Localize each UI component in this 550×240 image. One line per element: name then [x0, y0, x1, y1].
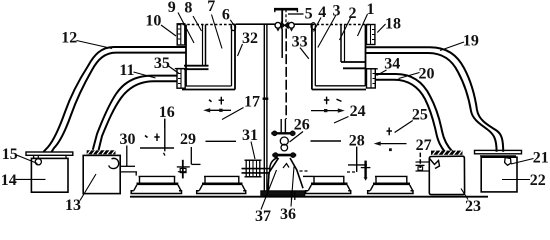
label leader 25 [395, 121, 413, 133]
valve V1 left drip triangle [276, 29, 279, 32]
label leader 35 [169, 66, 180, 74]
pipe 12 upper line [43, 47, 186, 152]
valve V1 right drip triangle [290, 29, 293, 32]
container 13 body [83, 155, 120, 193]
container 14 latch circle [35, 159, 41, 165]
label leader 6 [230, 20, 234, 26]
fitting F31 ribs [250, 160, 257, 176]
label leader 31 [251, 142, 255, 160]
connector line container13 to right lower [121, 171, 138, 173]
svg-text:5: 5 [305, 6, 313, 23]
dashes left of stud 28 [347, 171, 356, 173]
container 13 hatched rim [87, 150, 116, 154]
right tank box top dashed edge [312, 24, 369, 26]
fitting F34 inner rib [370, 69, 372, 88]
valve V1 right bolt circle [289, 22, 295, 28]
svg-text:15: 15 [2, 146, 18, 163]
svg-text:2: 2 [349, 5, 357, 22]
label leader 1 [358, 14, 368, 36]
left tank shelf upper [184, 65, 209, 67]
label leader 30 [126, 146, 128, 167]
left tank box bottom outer [182, 89, 235, 91]
svg-text:26: 26 [294, 117, 310, 134]
arrow 25 head [374, 141, 381, 145]
pipe 20 upper line [376, 74, 453, 152]
arrow 24 shaft [311, 110, 338, 112]
label leader 21 [511, 159, 534, 165]
fitting F18 body [367, 25, 375, 45]
left tank inner wall inner [202, 25, 204, 67]
support bell B1 [131, 176, 181, 193]
stud 28 point [364, 177, 368, 180]
support bell B3 [306, 176, 351, 193]
label leader 37 [261, 170, 277, 210]
svg-text:14: 14 [1, 172, 17, 189]
right tank box left wall outer [311, 24, 313, 89]
pipe 12 lower line [52, 53, 186, 152]
pump feet ticks [292, 191, 295, 200]
label leader 9 [178, 13, 194, 44]
svg-text:28: 28 [349, 132, 365, 149]
datum cross 16 horizontal [140, 147, 174, 149]
label leader 24 [334, 117, 349, 124]
valve V1 left bolt circle [275, 22, 281, 28]
label dash left of 31 [206, 140, 237, 142]
right tank box bottom outer [312, 89, 366, 91]
arrow 24 tick [337, 99, 342, 101]
arrow 24 head [338, 108, 345, 112]
T bar right tick [296, 9, 298, 13]
svg-text:31: 31 [242, 127, 258, 144]
svg-text:20: 20 [419, 65, 435, 82]
label leader 32 [238, 44, 243, 56]
container 22 lid plate [475, 150, 522, 153]
label leader 12 [77, 41, 113, 49]
svg-text:22: 22 [530, 172, 546, 189]
svg-text:35: 35 [154, 55, 170, 72]
svg-text:18: 18 [385, 16, 401, 33]
pump body apex mark [283, 164, 289, 169]
top connecting line right segment [295, 23, 313, 25]
svg-text:24: 24 [350, 103, 366, 120]
arrow 17 shaft [206, 109, 231, 111]
datum cross 16 dagger [154, 134, 159, 142]
label leader 18 [377, 24, 385, 33]
datum cross 16 vertical [164, 119, 166, 151]
fitting F35 cap [175, 68, 188, 70]
T bar left tick [274, 9, 276, 13]
fitting F34 cap [365, 68, 378, 70]
pipe 11 lower line [99, 81, 177, 150]
left tank inner wall outer [205, 25, 207, 67]
pipe 11 upper line [93, 76, 177, 150]
arrow 17 comma [209, 100, 212, 102]
pump second flange [272, 154, 296, 157]
pump suction pipe upper [242, 168, 271, 170]
stud 29 side line [192, 163, 201, 165]
svg-text:1: 1 [367, 1, 375, 18]
pump top flange right bolt [290, 131, 295, 136]
right tank box bottom inner [315, 85, 365, 87]
fitting F10 tick marks [178, 29, 181, 39]
line 28 cross [348, 164, 367, 166]
container 22 body [481, 157, 517, 192]
arrow 24 dot [324, 109, 327, 112]
pump inlet pipe pair above flange [281, 119, 285, 132]
pump top flange left bolt [272, 131, 277, 136]
fitting F31 cap top [245, 159, 262, 161]
fitting F31 cap bottom [245, 176, 262, 178]
center dashed line [285, 29, 287, 120]
pipe 19 upper line [366, 47, 503, 152]
right tank inner wall inner [344, 25, 346, 63]
dashes left of bell B3 [300, 170, 308, 172]
label leader 16 [164, 119, 166, 129]
label leader 14 [16, 178, 46, 180]
arrow 24 dagger [324, 97, 329, 105]
label leader 26 [290, 132, 304, 143]
svg-text:37: 37 [255, 208, 271, 225]
svg-text:25: 25 [412, 107, 428, 124]
label leader 23 [461, 189, 468, 200]
connector tick down [135, 172, 137, 176]
stud 28 cross tick [361, 167, 371, 169]
left column inner line [266, 24, 268, 196]
label leader 3 [318, 16, 336, 48]
svg-text:9: 9 [168, 0, 176, 16]
valve 26 barrel upper lobe [280, 137, 288, 145]
svg-text:33: 33 [292, 33, 308, 50]
svg-text:19: 19 [463, 32, 479, 49]
fitting F10 body [177, 24, 185, 45]
fitting F18 tick marks [372, 30, 375, 40]
fitting F10 inner rib [180, 24, 182, 45]
container 23 hatched lid [431, 151, 463, 155]
svg-text:7: 7 [207, 0, 215, 15]
svg-text:16: 16 [159, 104, 175, 121]
stud 27 cross tick [416, 164, 425, 166]
right tank box left wall inner [314, 26, 316, 86]
svg-text:17: 17 [244, 94, 260, 111]
pipe 19 lower line [366, 53, 497, 152]
label leader 10 [161, 25, 176, 36]
svg-text:34: 34 [384, 56, 400, 73]
stud 28 bar [364, 161, 366, 178]
top T header pipe [274, 8, 298, 11]
left tank box right wall outer [234, 24, 236, 89]
svg-text:30: 30 [120, 131, 136, 148]
container 14 neck tick left [33, 155, 35, 158]
T stem dashed companion [285, 9, 287, 22]
ground line [130, 196, 488, 198]
label leader 4 [314, 18, 322, 32]
pump top flange [271, 132, 295, 134]
left tank shelf lower [184, 68, 209, 70]
label leader 34 [377, 70, 387, 76]
label leader 36 [291, 167, 294, 207]
label leader 19 [440, 42, 464, 51]
label leader 7 [212, 15, 223, 49]
svg-text:4: 4 [318, 4, 326, 21]
svg-text:3: 3 [333, 2, 341, 19]
svg-text:6: 6 [222, 6, 230, 23]
left column outer line [263, 24, 265, 196]
fitting F34 body [367, 69, 376, 88]
left column tick nub [263, 97, 269, 99]
stud 29 lower tick [178, 171, 187, 173]
left tank box top dashed edge [178, 24, 235, 26]
fitting F18 inner rib [370, 25, 372, 45]
fitting F35 body [177, 69, 185, 89]
stud 29 bar [182, 160, 184, 179]
arrow 25 dot [389, 148, 392, 151]
right tank corner nozzle ellipse [311, 23, 316, 30]
svg-text:32: 32 [242, 30, 258, 47]
stud 27 nut [418, 167, 423, 170]
pump stub to bell B3 [303, 175, 313, 177]
svg-text:10: 10 [145, 13, 161, 30]
connector line container13 to right upper [120, 165, 135, 167]
svg-text:12: 12 [61, 30, 77, 47]
svg-text:13: 13 [65, 197, 81, 214]
T stem [281, 9, 283, 23]
label leader 13 [80, 174, 96, 201]
label leader 15 [17, 155, 38, 164]
stud 29 cross tick [177, 166, 190, 168]
container 23 body [429, 156, 464, 194]
pump second flange right bolt [291, 153, 296, 158]
line 28 vertical [356, 147, 358, 172]
arrow 17 dot [219, 109, 222, 112]
container 22 rim line [480, 155, 516, 157]
support bell B4 [368, 176, 413, 193]
pump body tent left side [268, 158, 279, 191]
label leader 33 [300, 48, 309, 59]
fitting F31 body [246, 160, 260, 177]
dagger near 25 [387, 128, 392, 136]
label leader 5 dash [288, 13, 304, 15]
container 14 lid plate [26, 152, 73, 155]
label leader 8 [193, 16, 202, 31]
container 23 left connector upper [416, 161, 430, 163]
top connecting line left segment [236, 23, 275, 25]
label leader 11 [134, 72, 156, 78]
svg-text:23: 23 [465, 198, 481, 215]
pump suction pipe lower [242, 172, 271, 174]
arrow 17 dagger [219, 97, 224, 105]
fitting F35 inner rib [180, 69, 182, 88]
label leader 17 [222, 108, 244, 120]
right tank box right wall [365, 25, 367, 87]
container 13 hook elbow [109, 158, 119, 168]
pump body tent right side [290, 158, 303, 188]
label leader 2 [340, 18, 351, 40]
svg-text:29: 29 [180, 131, 196, 148]
right tank shelf upper [341, 61, 366, 63]
svg-text:8: 8 [184, 0, 192, 17]
container 23 latch hook [430, 159, 440, 169]
left tank box bottom inner [186, 85, 232, 87]
arrow 25 shaft [377, 143, 407, 145]
arrow 17 head [203, 108, 210, 112]
pump base plate [261, 191, 305, 196]
stud 29 nut [180, 168, 186, 172]
container 23 left connector lower [416, 170, 430, 172]
right tank inner wall outer [340, 25, 342, 63]
container 14 latch stem [37, 155, 39, 158]
support bell B2 [197, 176, 246, 193]
svg-text:36: 36 [280, 206, 296, 223]
pipe 20 lower line [376, 80, 445, 152]
left tank box left wall [185, 25, 187, 87]
stem below valve [281, 28, 283, 58]
left tank box right wall inner [231, 26, 233, 86]
label leader 22 [502, 179, 530, 181]
fitting F34 tick marks [373, 74, 376, 84]
fitting F35 tick marks [178, 74, 181, 84]
container 14 body [31, 158, 68, 192]
right tank shelf lower [343, 67, 366, 69]
datum cross 16 lower tick [164, 153, 166, 156]
valve 26 barrel lower lobe [281, 144, 288, 151]
label leader 29 [190, 147, 192, 164]
label leader 20 [399, 73, 420, 79]
container 22 latch hook [505, 158, 511, 166]
left tank corner nozzle ellipse [231, 24, 236, 31]
pump elbow to suction pipe [270, 158, 278, 172]
svg-text:27: 27 [416, 137, 432, 154]
pump second flange left bolt [273, 153, 278, 158]
valve V1 body bowtie [281, 22, 288, 28]
stud 27 bar [419, 153, 421, 168]
label dash left of 28 [311, 140, 342, 142]
svg-text:11: 11 [119, 62, 134, 79]
container 14 neck tick right [65, 155, 67, 158]
datum cross 16 comma [145, 136, 148, 138]
svg-text:21: 21 [533, 149, 549, 166]
